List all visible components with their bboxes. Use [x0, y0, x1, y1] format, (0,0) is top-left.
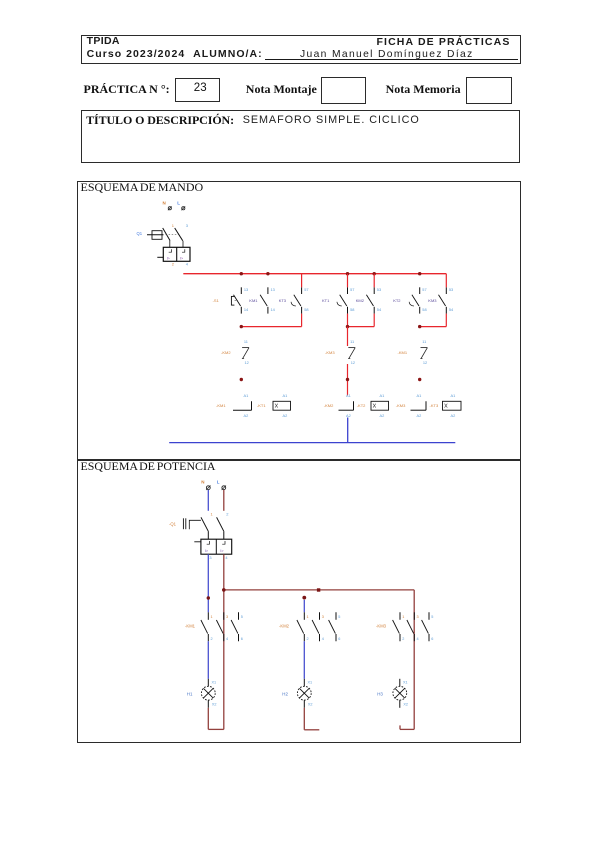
svg-text:11: 11 [244, 339, 248, 344]
svg-text:-KM1: -KM1 [216, 403, 226, 408]
svg-text:X2: X2 [308, 703, 313, 707]
svg-text:A1: A1 [283, 393, 288, 398]
svg-text:X2: X2 [403, 703, 408, 707]
svg-text:KT1: KT1 [322, 298, 330, 303]
svg-text:KT3: KT3 [279, 298, 287, 303]
svg-text:54: 54 [449, 307, 454, 312]
svg-text:13: 13 [244, 287, 248, 292]
svg-text:A2: A2 [451, 413, 456, 418]
svg-text:N: N [201, 480, 204, 485]
svg-text:12: 12 [423, 360, 427, 365]
svg-text:KM1: KM1 [249, 298, 258, 303]
svg-text:58: 58 [422, 307, 426, 312]
svg-text:58: 58 [304, 307, 308, 312]
svg-text:-KM2: -KM2 [279, 624, 290, 629]
svg-text:-KM3: -KM3 [376, 624, 387, 629]
svg-text:-KM2: -KM2 [324, 403, 334, 408]
svg-text:L: L [217, 480, 220, 485]
svg-text:A2: A2 [417, 413, 422, 418]
svg-text:-S1: -S1 [213, 298, 220, 303]
svg-text:A2: A2 [283, 413, 288, 418]
svg-text:1: 1 [172, 223, 175, 228]
svg-text:57: 57 [422, 287, 426, 292]
svg-text:KM3: KM3 [428, 298, 437, 303]
svg-text:L: L [177, 201, 180, 206]
svg-text:KM2: KM2 [356, 298, 365, 303]
svg-text:2: 2 [172, 261, 175, 266]
svg-text:1: 1 [307, 615, 309, 619]
svg-text:3: 3 [186, 223, 189, 228]
svg-text:A1: A1 [451, 393, 456, 398]
svg-text:57: 57 [304, 287, 308, 292]
svg-text:2: 2 [402, 637, 404, 641]
svg-text:13: 13 [271, 287, 275, 292]
svg-text:-KM1: -KM1 [185, 624, 196, 629]
svg-text:A1: A1 [346, 393, 351, 398]
svg-text:11: 11 [422, 339, 426, 344]
svg-text:X1: X1 [212, 680, 217, 684]
svg-text:2: 2 [226, 512, 229, 517]
svg-text:12: 12 [245, 360, 249, 365]
svg-text:4: 4 [226, 637, 228, 641]
svg-text:-KT1: -KT1 [257, 403, 266, 408]
svg-text:Q1: Q1 [137, 231, 143, 236]
svg-text:3: 3 [226, 615, 228, 619]
svg-text:H2: H2 [282, 692, 288, 697]
svg-text:X1: X1 [308, 680, 313, 684]
svg-text:5: 5 [241, 615, 243, 619]
svg-text:5: 5 [431, 615, 433, 619]
svg-text:4: 4 [186, 261, 189, 266]
svg-text:5: 5 [338, 615, 340, 619]
svg-text:4: 4 [322, 637, 324, 641]
svg-text:KT2: KT2 [393, 298, 401, 303]
svg-text:I>: I> [220, 549, 223, 553]
svg-text:3: 3 [322, 615, 324, 619]
svg-text:-KM3: -KM3 [325, 350, 335, 355]
svg-text:-Q1: -Q1 [169, 522, 177, 527]
svg-text:X1: X1 [403, 680, 408, 684]
svg-text:57: 57 [350, 287, 354, 292]
svg-text:53: 53 [449, 287, 453, 292]
svg-text:6: 6 [431, 637, 433, 641]
svg-text:X2: X2 [212, 703, 217, 707]
svg-text:-KT2: -KT2 [357, 403, 366, 408]
svg-text:H1: H1 [187, 692, 193, 697]
svg-text:A2: A2 [244, 413, 249, 418]
svg-text:12: 12 [351, 360, 355, 365]
svg-text:A1: A1 [380, 393, 385, 398]
svg-text:4: 4 [417, 637, 419, 641]
svg-text:53: 53 [377, 287, 381, 292]
svg-text:6: 6 [241, 637, 243, 641]
svg-text:-KM1: -KM1 [398, 350, 408, 355]
svg-text:A1: A1 [417, 393, 422, 398]
svg-text:-KT3: -KT3 [430, 403, 439, 408]
svg-text:-KM3: -KM3 [396, 403, 406, 408]
svg-text:I>: I> [180, 256, 183, 260]
svg-text:1: 1 [402, 615, 404, 619]
svg-text:3: 3 [417, 615, 419, 619]
svg-text:A1: A1 [244, 393, 249, 398]
svg-text:2: 2 [307, 637, 309, 641]
svg-text:14: 14 [271, 307, 276, 312]
svg-text:54: 54 [377, 307, 382, 312]
svg-text:H3: H3 [377, 692, 383, 697]
svg-text:2: 2 [211, 637, 213, 641]
svg-text:I>: I> [205, 549, 208, 553]
svg-text:A2: A2 [380, 413, 385, 418]
svg-text:14: 14 [244, 307, 249, 312]
svg-text:6: 6 [338, 637, 340, 641]
svg-text:4: 4 [225, 555, 228, 560]
svg-text:58: 58 [350, 307, 354, 312]
svg-text:I>: I> [167, 256, 170, 260]
svg-text:1: 1 [211, 615, 213, 619]
svg-text:3: 3 [209, 555, 211, 560]
svg-text:11: 11 [350, 339, 354, 344]
svg-text:N: N [163, 201, 166, 206]
svg-text:1: 1 [211, 512, 214, 517]
svg-text:-KM2: -KM2 [221, 350, 231, 355]
svg-text:A2: A2 [346, 413, 351, 418]
